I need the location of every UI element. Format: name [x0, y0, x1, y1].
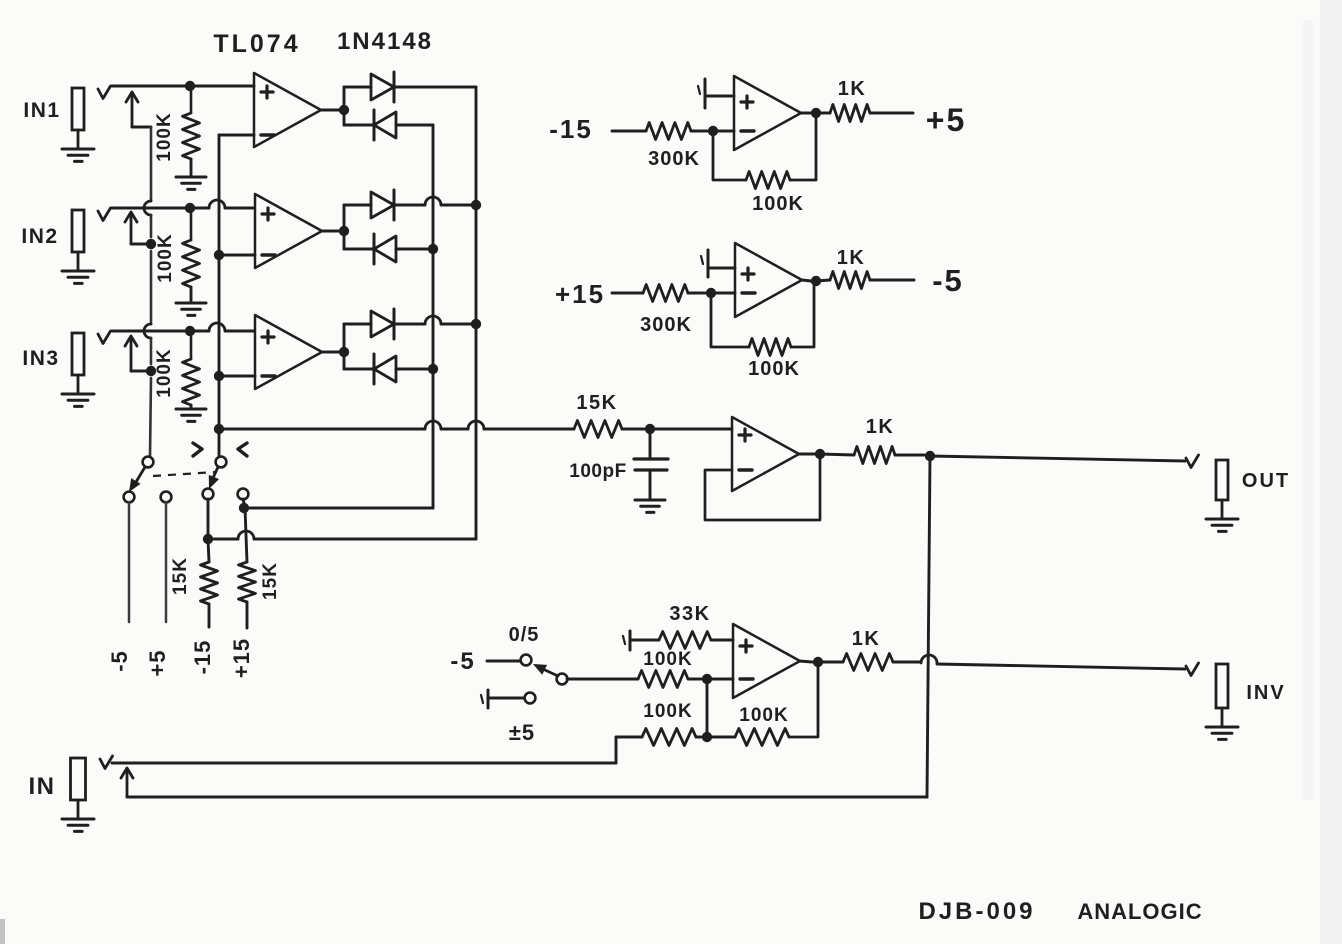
- svg-text:100K: 100K: [643, 701, 692, 722]
- svg-text:IN1: IN1: [23, 99, 60, 122]
- svg-text:300K: 300K: [648, 148, 700, 170]
- svg-text:+5: +5: [926, 102, 966, 138]
- svg-text:+15: +15: [555, 279, 605, 309]
- svg-text:1K: 1K: [866, 416, 895, 438]
- svg-text:33K: 33K: [669, 603, 710, 625]
- svg-text:1K: 1K: [837, 247, 866, 269]
- svg-text:+15: +15: [229, 638, 254, 678]
- svg-text:-5: -5: [450, 648, 475, 675]
- svg-text:1K: 1K: [838, 78, 867, 100]
- svg-text:±5: ±5: [509, 720, 535, 745]
- svg-text:100K: 100K: [154, 112, 175, 161]
- svg-text:100K: 100K: [643, 649, 692, 670]
- svg-text:300K: 300K: [640, 314, 692, 336]
- svg-text:+5: +5: [145, 649, 170, 676]
- svg-text:-15: -15: [549, 114, 593, 144]
- svg-text:OUT: OUT: [1242, 470, 1290, 492]
- svg-text:100K: 100K: [155, 233, 176, 282]
- svg-text:1N4148: 1N4148: [337, 28, 433, 55]
- svg-text:IN: IN: [29, 773, 56, 800]
- svg-text:-5: -5: [107, 650, 132, 672]
- svg-text:INV: INV: [1246, 682, 1285, 704]
- svg-text:100K: 100K: [748, 358, 800, 380]
- svg-text:1K: 1K: [852, 628, 881, 650]
- svg-text:TL074: TL074: [213, 30, 300, 58]
- svg-text:0/5: 0/5: [509, 624, 540, 646]
- svg-text:100K: 100K: [739, 705, 788, 726]
- svg-text:IN3: IN3: [22, 347, 59, 370]
- svg-text:15K: 15K: [576, 392, 617, 414]
- svg-text:100pF: 100pF: [569, 461, 626, 482]
- svg-text:100K: 100K: [154, 348, 175, 397]
- svg-text:100K: 100K: [752, 193, 804, 215]
- svg-text:ANALOGIC: ANALOGIC: [1077, 899, 1202, 924]
- svg-text:-5: -5: [932, 263, 964, 298]
- svg-text:-15: -15: [190, 640, 215, 675]
- svg-text:DJB-009: DJB-009: [918, 898, 1035, 925]
- svg-text:15K: 15K: [260, 562, 281, 600]
- svg-text:15K: 15K: [170, 557, 191, 595]
- svg-text:IN2: IN2: [21, 225, 58, 248]
